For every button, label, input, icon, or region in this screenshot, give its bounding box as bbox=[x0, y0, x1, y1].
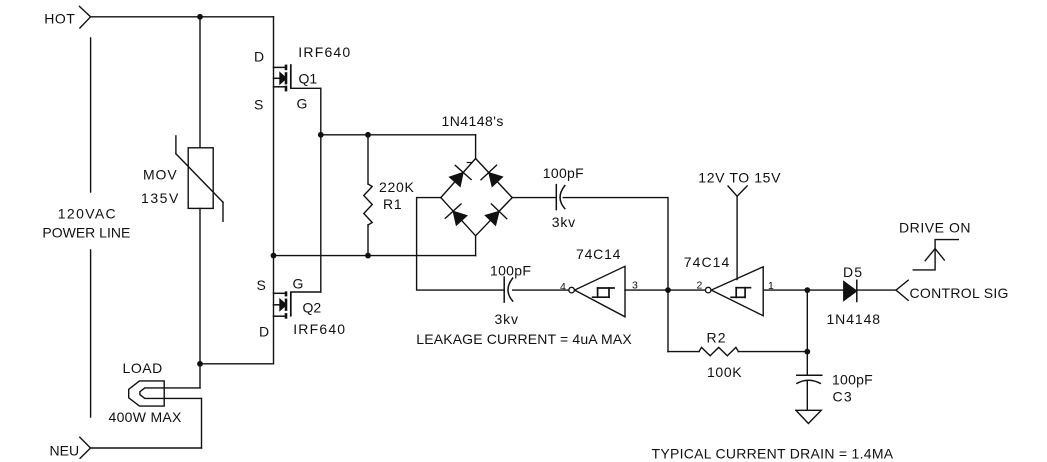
svg-text:2: 2 bbox=[697, 279, 703, 291]
capacitor C3 100pF bbox=[797, 352, 822, 411]
wire bridge top drop bbox=[475, 135, 477, 159]
node A junction bbox=[665, 287, 671, 293]
svg-text:R2: R2 bbox=[707, 330, 727, 346]
node R2-C3 junction bbox=[804, 349, 810, 355]
wire Q2 drain to load junction bbox=[200, 363, 274, 365]
svg-text:LEAKAGE CURRENT = 4uA MAX: LEAKAGE CURRENT = 4uA MAX bbox=[416, 331, 632, 347]
wire bridge left feed bbox=[417, 198, 505, 291]
svg-text:NEU: NEU bbox=[50, 443, 80, 459]
node HOT junction bbox=[197, 14, 203, 20]
capacitor 100pF 3kv (lower) bbox=[504, 277, 513, 302]
svg-text:4: 4 bbox=[560, 281, 566, 293]
svg-text:G: G bbox=[297, 96, 308, 112]
wire load top lead bbox=[164, 387, 200, 389]
load lamp symbol bbox=[129, 381, 165, 406]
svg-text:TYPICAL CURRENT DRAIN = 1.4MA: TYPICAL CURRENT DRAIN = 1.4MA bbox=[652, 446, 894, 462]
svg-text:IRF640: IRF640 bbox=[293, 321, 346, 337]
svg-text:D: D bbox=[259, 324, 269, 340]
power 12V TO 15V connection bbox=[728, 186, 747, 280]
resistor R1 220K bbox=[364, 184, 372, 225]
svg-text:S: S bbox=[257, 277, 266, 293]
wire load bottom lead bbox=[164, 397, 201, 399]
wire node B down to R2-C3 node bbox=[806, 290, 808, 352]
wire gate vertical bbox=[320, 88, 322, 292]
wire node A down to R2 bbox=[667, 290, 669, 352]
wire inverter1 output to node A bbox=[625, 289, 668, 291]
op-amp U1A 74C14 Schmitt inverter (pins 3-4) bbox=[569, 266, 625, 317]
svg-text:220K: 220K bbox=[379, 179, 415, 195]
svg-text:400W MAX: 400W MAX bbox=[109, 409, 183, 425]
diode bridge D2 (right to top) bbox=[481, 165, 503, 186]
svg-text:IRF640: IRF640 bbox=[298, 44, 351, 60]
svg-text:74C14: 74C14 bbox=[684, 254, 731, 270]
wire R2 right lead bbox=[738, 351, 807, 353]
bridge diamond edges bbox=[441, 159, 512, 236]
wire NEU horizontal bbox=[91, 447, 202, 449]
wire left power-line vertical lower bbox=[90, 250, 92, 417]
svg-text:DRIVE ON: DRIVE ON bbox=[899, 220, 971, 236]
op-amp U1B 74C14 Schmitt inverter (pins 1-2) bbox=[705, 267, 763, 316]
resistor R2 100K bbox=[699, 347, 738, 355]
svg-text:100K: 100K bbox=[707, 364, 742, 380]
wire upper cap to node A bbox=[563, 198, 668, 291]
wire inverter2 input line bbox=[763, 289, 843, 291]
wire D5 to control sig bbox=[857, 289, 896, 291]
wire R2 left lead bbox=[668, 351, 699, 353]
wire R1 bottom lead bbox=[367, 225, 369, 256]
svg-text:Q1: Q1 bbox=[299, 70, 318, 86]
diode D5 1N4148 bbox=[844, 280, 857, 301]
svg-text:74C14: 74C14 bbox=[576, 246, 621, 262]
svg-text:D5: D5 bbox=[843, 264, 863, 280]
wire HOT horizontal bbox=[91, 16, 274, 18]
svg-text:S: S bbox=[254, 97, 263, 113]
wire MOV branch top bbox=[199, 17, 201, 148]
wire bridge right to upper cap bbox=[512, 197, 556, 199]
bridge plus mark bbox=[467, 162, 471, 164]
svg-text:D: D bbox=[254, 49, 264, 65]
svg-text:100pF: 100pF bbox=[832, 372, 873, 388]
svg-text:G: G bbox=[293, 276, 304, 292]
svg-text:1N4148: 1N4148 bbox=[827, 311, 881, 327]
node gate junction bbox=[318, 132, 324, 138]
svg-text:R1: R1 bbox=[383, 196, 403, 212]
svg-text:12V TO 15V: 12V TO 15V bbox=[698, 170, 781, 186]
svg-text:3kv: 3kv bbox=[495, 311, 519, 327]
wire main vertical Q1-Q2 bbox=[273, 17, 275, 364]
svg-text:Q2: Q2 bbox=[303, 300, 322, 316]
svg-text:3kv: 3kv bbox=[552, 214, 576, 230]
node R1 top junction bbox=[365, 132, 371, 138]
svg-text:HOT: HOT bbox=[44, 11, 75, 27]
svg-text:135V: 135V bbox=[141, 190, 180, 206]
drive-on rising edge symbol bbox=[913, 240, 958, 270]
wire source rail bbox=[274, 255, 476, 257]
svg-text:100pF: 100pF bbox=[543, 165, 584, 181]
diode bridge D1 (left to top) bbox=[449, 165, 471, 186]
connector CONTROL SIG chevron bbox=[896, 280, 908, 300]
capacitor 100pF 3kv (upper) bbox=[556, 185, 565, 210]
transistor Q2 IRF640 bbox=[274, 291, 321, 318]
wire R1 top lead bbox=[367, 135, 369, 184]
transistor Q1 IRF640 bbox=[274, 64, 321, 91]
node R1 bottom junction bbox=[365, 253, 371, 259]
svg-text:1N4148's: 1N4148's bbox=[442, 113, 504, 129]
svg-text:POWER LINE: POWER LINE bbox=[42, 225, 130, 241]
svg-text:MOV: MOV bbox=[143, 167, 178, 183]
wire lower cap to inverter input bbox=[513, 289, 569, 291]
varistor MOV body bbox=[176, 136, 223, 221]
diode bridge D4 (bottom to right) bbox=[485, 204, 507, 225]
svg-text:120VAC: 120VAC bbox=[58, 206, 117, 222]
connector NEU chevron bbox=[80, 437, 91, 458]
wire node A to inverter2 output bbox=[668, 289, 705, 291]
svg-text:CONTROL SIG: CONTROL SIG bbox=[910, 285, 1009, 301]
node load junction bbox=[197, 361, 203, 367]
svg-text:C3: C3 bbox=[833, 389, 854, 405]
connector HOT chevron bbox=[79, 6, 90, 28]
svg-text:100pF: 100pF bbox=[490, 263, 531, 279]
diode bridge D3 (bottom to left) bbox=[445, 204, 467, 225]
wire MOV bottom bbox=[199, 208, 201, 363]
svg-text:LOAD: LOAD bbox=[123, 360, 163, 376]
node B junction bbox=[804, 287, 810, 293]
wire gate feed horizontal bbox=[321, 134, 476, 136]
ground symbol bbox=[796, 410, 821, 423]
wire left power-line vertical upper bbox=[90, 38, 92, 192]
wire bridge bottom to rail bbox=[475, 236, 477, 256]
node source rail left bbox=[271, 253, 277, 259]
